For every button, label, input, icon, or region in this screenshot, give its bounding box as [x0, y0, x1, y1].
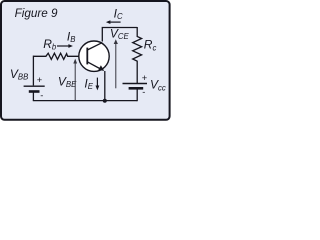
wire below VBB battery — [32, 92, 34, 101]
wire emitter vertical — [104, 71, 106, 101]
transistor base bar — [86, 48, 88, 65]
transistor emitter lead with arrow — [87, 62, 101, 70]
battery VBB — [24, 86, 45, 91]
transistor Q1 circle — [79, 41, 109, 71]
wire right vertical below Rc battery to bottom — [136, 89, 138, 102]
wire left vertical — [32, 56, 34, 86]
voltage arrow VBE up — [73, 59, 77, 100]
svg-text:Figure 9: Figure 9 — [15, 7, 58, 20]
voltage arrow VCE up — [114, 39, 118, 88]
svg-text:+: + — [142, 73, 147, 83]
current arrow IB — [57, 44, 73, 48]
resistor Rc zigzag — [133, 27, 142, 83]
svg-text:-: - — [40, 91, 43, 101]
transistor collector lead — [87, 43, 102, 50]
wire bottom — [33, 100, 137, 102]
current arrow IE down — [96, 78, 100, 91]
battery Vcc — [123, 84, 148, 89]
node emitter junction dot — [103, 99, 107, 103]
svg-text:+: + — [37, 75, 42, 85]
svg-text:-: - — [142, 87, 145, 97]
wire base loop top with resistor Rb zigzag — [33, 53, 87, 59]
current arrow IC — [106, 20, 121, 24]
wire top collector run — [102, 28, 137, 42]
